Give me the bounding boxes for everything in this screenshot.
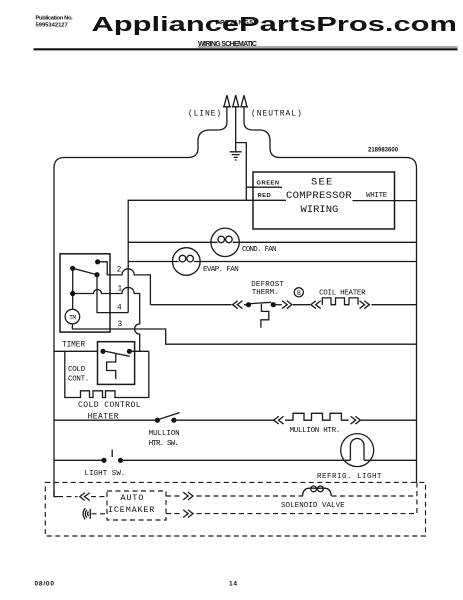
svg-text:(LINE): (LINE): [188, 110, 222, 119]
svg-text:5995342127: 5995342127: [36, 23, 68, 29]
wire line bus to icemaker: [54, 490, 58, 497]
mullion heater resistor: [285, 413, 349, 420]
node B circle: [294, 288, 303, 297]
wire mullion switch line: [54, 419, 157, 421]
icemaker dashed enclosure: [45, 482, 425, 536]
svg-text:LIGHT SW.: LIGHT SW.: [85, 470, 126, 478]
svg-text:3: 3: [118, 321, 123, 329]
compressor box U1: [253, 172, 395, 229]
svg-text:TM: TM: [69, 314, 76, 321]
svg-text:SEE: SEE: [311, 177, 334, 189]
coil heater resistor: [322, 298, 358, 305]
wire green from ground to compressor box: [236, 143, 247, 201]
wire plug to icemaker box lower: [92, 513, 108, 515]
timer contact C: [94, 272, 99, 277]
wire light switch line: [54, 459, 104, 461]
svg-text:4: 4: [117, 305, 122, 313]
svg-text:REFRIG. LIGHT: REFRIG. LIGHT: [317, 473, 382, 481]
timer contact B: [70, 266, 75, 271]
wire defrost line from timer pin2: [150, 304, 231, 306]
svg-text:2: 2: [117, 267, 122, 275]
wire white from compressor box to neutral bus: [353, 200, 417, 202]
wire mullion heater to neutral bus: [361, 419, 417, 421]
svg-text:AppliancePartsPros.com: AppliancePartsPros.com: [92, 13, 458, 36]
svg-text:SOLENOID VALVE: SOLENOID VALVE: [281, 502, 345, 510]
timer box: [60, 254, 110, 332]
cold control contact left: [100, 349, 105, 354]
timer motor TM: [65, 309, 80, 324]
wire timer common B to D to motor: [72, 268, 74, 309]
wire to solenoid valve: [197, 495, 304, 497]
cold control bellows: [107, 354, 116, 379]
plug prong LINE: [223, 95, 231, 107]
svg-text:1: 1: [118, 286, 123, 294]
connector chevrons right pointing: [282, 301, 292, 309]
svg-text:COIL HEATER: COIL HEATER: [319, 290, 366, 298]
wire coil heater to neutral bus: [372, 304, 417, 306]
mullion switch contacts: [155, 418, 160, 423]
mullion switch arm: [158, 413, 180, 420]
svg-text:COND. FAN: COND. FAN: [242, 246, 276, 254]
plug prong NEUTRAL: [240, 95, 248, 107]
cold control box: [98, 342, 135, 385]
connector chevrons right of mullion heater: [351, 416, 361, 424]
wire icemaker lower output: [166, 513, 181, 515]
svg-text:CONT.: CONT.: [68, 376, 89, 384]
timer switch arm: [73, 268, 97, 274]
cold control contact right: [127, 349, 132, 354]
wire mullion switch to connector: [174, 419, 274, 421]
wire timer pin 4: [97, 275, 128, 313]
svg-text:THERM.: THERM.: [252, 289, 279, 297]
wire light switch to lamp: [121, 459, 351, 461]
green terminal underline: [246, 186, 282, 188]
solenoid valve coil: [303, 486, 332, 496]
wire ground prong stem: [235, 107, 237, 152]
defrost thermostat contacts: [246, 302, 251, 307]
wire condenser fan line: [128, 241, 416, 243]
svg-text:MULLION: MULLION: [149, 430, 180, 438]
connector chevrons right of coil heater: [360, 301, 370, 309]
svg-text:WIRING: WIRING: [301, 204, 339, 216]
wire icemaker lower to neutral dashed bus: [197, 513, 417, 515]
title underline: [198, 46, 458, 48]
wire from defrost contact: [273, 304, 282, 306]
wire red from compressor box to bus node: [128, 200, 286, 312]
svg-text:AUTO: AUTO: [121, 493, 145, 503]
water valve plug symbol: [83, 508, 90, 519]
defrost thermostat arm: [250, 302, 272, 303]
refrigerator light lamp: [341, 434, 374, 467]
wire between connectors: [293, 304, 310, 306]
wire cold control output: [129, 350, 148, 352]
wire left line bus from plug to bottom: [54, 107, 227, 497]
timer contact A: [95, 259, 100, 264]
wire timer pin 1: [73, 287, 140, 351]
svg-text:MULLION HTR.: MULLION HTR.: [290, 427, 340, 435]
auto icemaker box: [107, 491, 166, 520]
wire neutral bus dashed tail: [416, 483, 418, 514]
evaporator fan motor: [173, 248, 201, 276]
wire to defrost contact: [244, 304, 246, 306]
wire timer pin 3 to neutral bus: [72, 324, 416, 344]
header rule: [34, 48, 458, 50]
svg-text:RED: RED: [258, 193, 272, 199]
svg-text:TIMER: TIMER: [62, 342, 85, 350]
condenser fan motor: [211, 228, 239, 256]
light switch contacts: [101, 458, 106, 463]
svg-text:EVAP. FAN: EVAP. FAN: [203, 266, 238, 274]
svg-text:DEFROST: DEFROST: [251, 281, 284, 289]
svg-text:FRT21NG5: FRT21NG5: [216, 20, 254, 27]
wire icemaker to solenoid: [166, 495, 181, 497]
cold control heater loop and resistor: [65, 351, 149, 397]
wire solenoid to neutral dashed bus: [332, 495, 417, 497]
wire to icemaker box: [91, 496, 107, 498]
svg-text:COLD: COLD: [68, 366, 86, 374]
wire evaporator fan line: [128, 261, 416, 263]
timer contact D: [70, 291, 75, 296]
connector chevrons to icemaker: [80, 493, 90, 501]
svg-text:Publication No.: Publication No.: [36, 16, 74, 22]
light switch plunger: [111, 450, 113, 458]
svg-text:218983600: 218983600: [368, 148, 399, 154]
connector chevrons right of icemaker top: [183, 492, 193, 500]
svg-text:B: B: [297, 290, 301, 297]
connector chevrons left of defrost thermostat: [233, 301, 243, 309]
svg-text:14: 14: [229, 581, 238, 588]
connector chevrons right of icemaker bottom: [183, 510, 193, 518]
wire cold control feed: [54, 350, 98, 352]
svg-text:HTR. SW.: HTR. SW.: [149, 440, 178, 448]
plug prong ground: [232, 95, 240, 107]
svg-text:COLD CONTROL: COLD CONTROL: [78, 401, 141, 410]
connector chevrons left of coil heater: [311, 301, 321, 309]
svg-text:08/00: 08/00: [35, 581, 55, 588]
svg-text:(NEUTRAL): (NEUTRAL): [251, 110, 303, 119]
svg-text:ICEMAKER: ICEMAKER: [108, 505, 155, 515]
svg-text:WHITE: WHITE: [366, 192, 388, 200]
svg-text:GREEN: GREEN: [257, 180, 280, 186]
defrost thermostat bellows: [261, 304, 269, 328]
wire timer pin 2: [98, 262, 151, 305]
svg-text:COMPRESSOR: COMPRESSOR: [286, 190, 352, 202]
ground symbol: [230, 152, 242, 160]
cold control switch arm: [104, 351, 130, 356]
wire lamp to neutral bus: [364, 459, 417, 461]
wire right neutral bus from plug to bottom: [244, 107, 417, 483]
connector chevrons left of mullion heater: [274, 416, 284, 424]
